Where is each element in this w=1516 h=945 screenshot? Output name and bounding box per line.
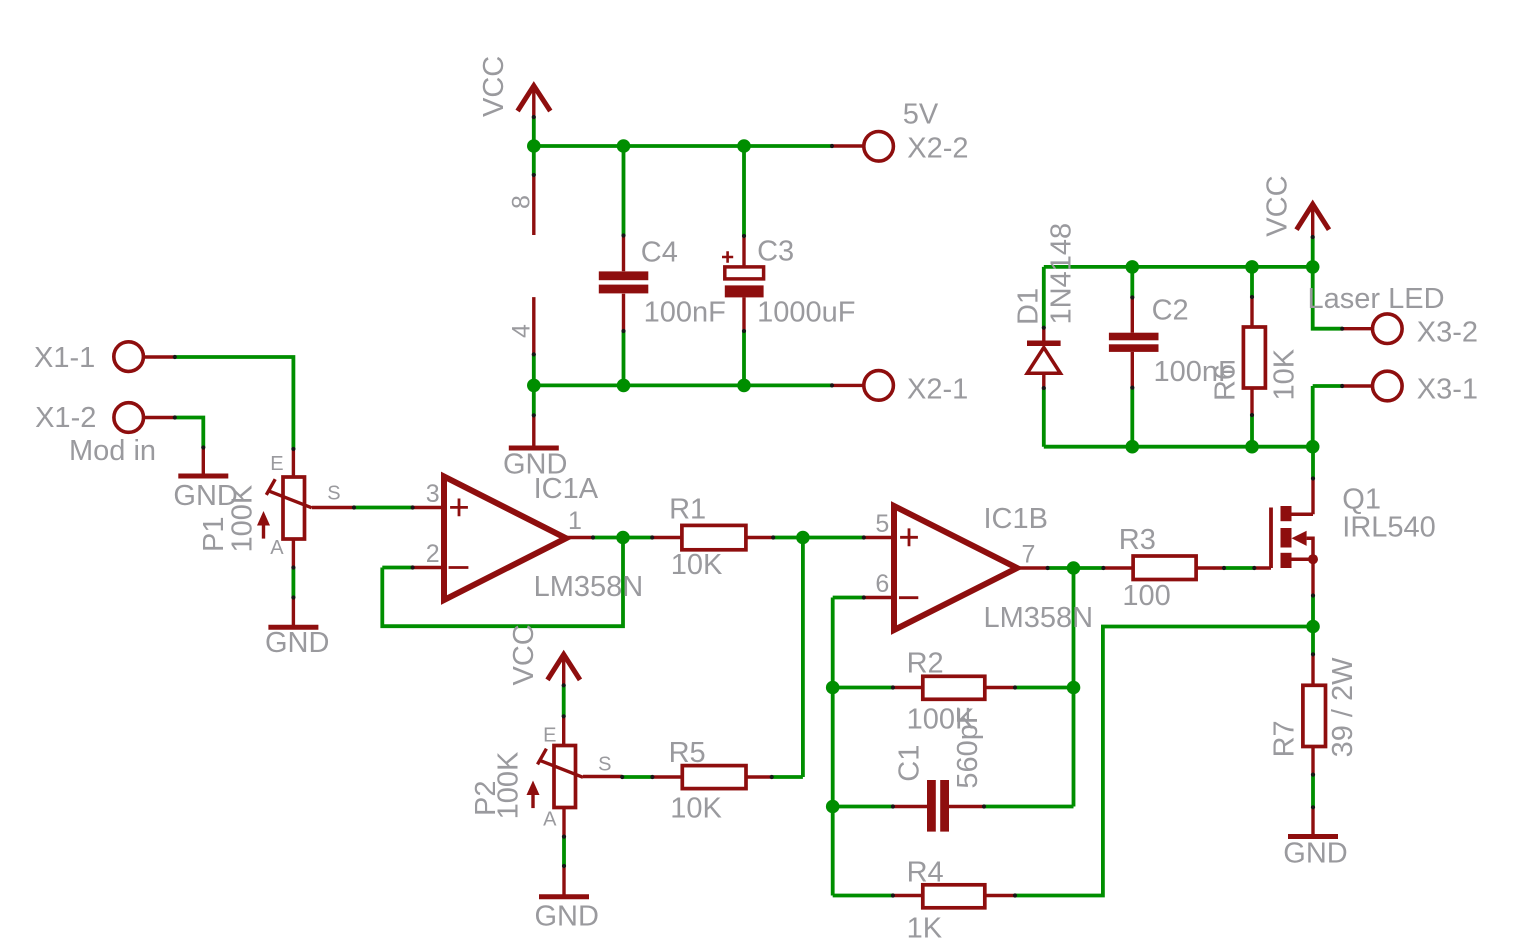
svg-text:R2: R2 <box>907 648 944 680</box>
svg-text:560pF: 560pF <box>952 706 984 788</box>
svg-text:A: A <box>270 537 284 559</box>
svg-text:100K: 100K <box>227 484 259 552</box>
svg-text:5V: 5V <box>903 99 939 131</box>
svg-text:1N4148: 1N4148 <box>1046 223 1078 325</box>
svg-text:10K: 10K <box>671 549 723 581</box>
svg-text:X3-2: X3-2 <box>1417 317 1478 349</box>
svg-text:VCC: VCC <box>508 624 540 685</box>
svg-text:E: E <box>270 453 283 475</box>
svg-text:X2-2: X2-2 <box>907 132 968 164</box>
svg-text:100: 100 <box>1122 580 1170 612</box>
svg-text:1K: 1K <box>907 913 943 945</box>
svg-text:X1-1: X1-1 <box>34 342 95 374</box>
svg-text:LM358N: LM358N <box>534 571 644 603</box>
svg-text:C4: C4 <box>641 237 678 269</box>
svg-text:C2: C2 <box>1152 295 1189 327</box>
svg-text:4: 4 <box>508 324 536 338</box>
svg-text:R5: R5 <box>669 737 706 769</box>
svg-text:8: 8 <box>508 195 536 209</box>
svg-text:Mod in: Mod in <box>69 435 156 467</box>
svg-text:VCC: VCC <box>478 56 510 117</box>
svg-text:IC1A: IC1A <box>534 473 599 505</box>
svg-text:3: 3 <box>426 480 440 508</box>
svg-text:S: S <box>598 754 611 776</box>
svg-text:A: A <box>543 809 557 831</box>
svg-text:R7: R7 <box>1269 720 1301 757</box>
svg-text:E: E <box>543 725 556 747</box>
svg-text:R4: R4 <box>907 857 944 889</box>
svg-text:IRL540: IRL540 <box>1342 512 1436 544</box>
svg-text:D1: D1 <box>1013 288 1045 325</box>
svg-text:GND: GND <box>1283 838 1347 870</box>
svg-text:5: 5 <box>875 510 889 538</box>
svg-text:2: 2 <box>426 540 440 568</box>
svg-text:39 / 2W: 39 / 2W <box>1327 657 1359 758</box>
svg-text:C1: C1 <box>894 745 926 782</box>
svg-text:IC1B: IC1B <box>984 503 1048 535</box>
svg-text:P1: P1 <box>198 517 230 552</box>
svg-text:LM358N: LM358N <box>984 602 1094 634</box>
svg-text:1000uF: 1000uF <box>757 296 855 328</box>
svg-text:X2-1: X2-1 <box>907 374 968 406</box>
svg-text:7: 7 <box>1022 540 1036 568</box>
svg-text:R1: R1 <box>669 493 706 525</box>
svg-text:6: 6 <box>875 570 889 598</box>
svg-text:VCC: VCC <box>1262 175 1294 236</box>
svg-text:GND: GND <box>535 901 599 933</box>
svg-text:R6: R6 <box>1210 364 1242 401</box>
svg-text:Laser LED: Laser LED <box>1308 283 1445 315</box>
svg-text:10K: 10K <box>1269 348 1301 400</box>
svg-text:100nF: 100nF <box>644 297 726 329</box>
svg-text:GND: GND <box>265 627 329 659</box>
svg-text:X1-2: X1-2 <box>35 402 96 434</box>
svg-text:100K: 100K <box>492 751 524 819</box>
svg-text:C3: C3 <box>757 236 794 268</box>
svg-text:1: 1 <box>568 507 582 535</box>
svg-text:S: S <box>327 482 340 504</box>
svg-text:R3: R3 <box>1119 524 1156 556</box>
svg-text:X3-1: X3-1 <box>1417 374 1478 406</box>
svg-text:10K: 10K <box>670 793 722 825</box>
